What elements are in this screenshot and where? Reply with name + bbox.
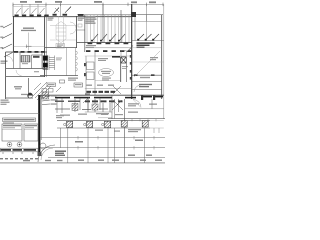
bedroom text block: [137, 42, 155, 48]
turning radius arc: [38, 145, 55, 162]
paper background: [0, 0, 165, 165]
exterior leader arrow 1 (left margin): [2, 24, 13, 58]
beam leader arrows: [92, 34, 125, 41]
strip tick marks: [3, 152, 33, 154]
west edge of joist field: [84, 15, 86, 43]
dashed lot line: [0, 158, 38, 160]
parking horizontal line 3: [48, 157, 165, 159]
schedule table 1: [2, 124, 22, 141]
unit label row below south wall: [85, 100, 123, 102]
dimension text 14'-0": [149, 1, 156, 3]
diagonal in living room: [134, 51, 160, 77]
small car boxes: [42, 89, 47, 93]
heavy center band: main south wall: [40, 94, 164, 96]
porch door swing: [133, 100, 141, 108]
wall lower line with openings: [55, 97, 163, 98]
storage wall y=75.5 center: [40, 75, 78, 77]
stair note text: [48, 18, 54, 19]
note text under beam labels: [86, 45, 96, 46]
oval text: [101, 71, 111, 72]
boxed note center: [56, 44, 65, 49]
level line: [85, 55, 132, 57]
column grid line E: [45, 4, 47, 16]
second floor line: [85, 47, 132, 49]
scalloped duct chase: [67, 48, 78, 76]
column blob at top of right wing: [131, 12, 136, 17]
corner diagonal brace: [127, 46, 133, 53]
small room right of vestibule: [84, 15, 86, 52]
leader arrow bay3: [32, 8, 37, 14]
note text top of left-bottom: [1, 100, 10, 105]
center-right apartment walls: [94, 52, 96, 95]
dimension text 14'-2": [20, 1, 27, 3]
schedule table 2: [24, 124, 38, 141]
column grid line F: [60, 4, 62, 16]
door arc corridor: [16, 70, 22, 76]
column symbol circle 1: [7, 142, 12, 147]
right edge line: [163, 4, 165, 119]
bedroom door arc right: [134, 85, 141, 92]
dim line above south wall: [85, 88, 132, 90]
right wing: heavy wall x=131.5: [131, 4, 133, 99]
heavy west wall of lower block: [38, 95, 40, 152]
corridor note texts: [56, 115, 64, 118]
right wing top interior line: [132, 21, 162, 23]
garage center line: [28, 33, 30, 51]
corridor wall y=76.5: [6, 76, 45, 78]
leader arrow top-left corner: [40, 8, 45, 14]
beam label W16 row (top-left bays): [15, 14, 84, 17]
text below oval: [102, 78, 111, 79]
stair ladder next to elevator: [49, 56, 55, 71]
dimension text 12'-8": [35, 1, 42, 3]
leader arrows at wall: [42, 96, 50, 105]
hatched column 2: [87, 121, 93, 127]
arrow tail texts: [0, 26, 3, 27]
lower garage bottom wall: [6, 97, 33, 99]
hatched column 1: [67, 121, 73, 127]
elevator shaft black cells: [43, 56, 48, 61]
metal deck note text block: [86, 17, 97, 24]
second floor note text right: [150, 57, 158, 60]
leader arrow bay1: [16, 8, 21, 14]
living room text: [140, 77, 150, 78]
garage right double wall: [44, 15, 46, 77]
wheel stop circle on wall: [40, 143, 46, 149]
unit partition walls below corridor: [55, 108, 108, 111]
parking field verticals: [61, 128, 145, 163]
corridor marks: [34, 71, 39, 72]
garage upper-left: left wall: [12, 16, 14, 53]
garage ceiling joist line: [13, 46, 44, 48]
unit sill line: [85, 111, 112, 113]
second-floor beam label row: [86, 50, 131, 52]
door blobs on right wing west wall: [130, 55, 132, 80]
garage sill symbol: [26, 45, 32, 49]
top wall right segment: [131, 14, 163, 16]
leader text: [51, 95, 57, 96]
parking stall ticks: [78, 128, 159, 150]
braced column with X: [121, 57, 127, 63]
column grid line G: [102, 4, 104, 15]
dim text 24'-0: [23, 160, 30, 162]
bar end blob: [38, 152, 42, 156]
joist bearing line: [77, 14, 131, 16]
hatched column 4: [121, 121, 127, 127]
porch verticals: [115, 99, 152, 119]
beam leader arrowheads: [91, 40, 120, 42]
closet note rows: [78, 18, 84, 19]
X brace marks top-center: [55, 7, 71, 12]
column symbol circle 2: [17, 142, 22, 147]
dark wall segment: [112, 56, 120, 58]
dim text 14'-0 bottom: [45, 160, 51, 161]
room text small: [22, 63, 28, 64]
wall label dashes y=75: [134, 74, 155, 76]
ramp hatch blob: [42, 92, 49, 99]
door swing diagonals center: [83, 86, 123, 110]
right wing inner line x=135: [134, 12, 136, 41]
column grid line D: [37, 4, 39, 16]
column grid line C: [29, 4, 31, 16]
dim text center low: [101, 114, 108, 115]
arrowheads: [137, 39, 154, 41]
dim text row above south wall: [86, 85, 114, 86]
dimension text 74'-0": [55, 1, 62, 3]
hatched column 5: [142, 121, 148, 127]
door arcs near vestibule: [70, 22, 76, 28]
leader arrow bay2: [24, 8, 29, 14]
garage text: [14, 86, 22, 88]
leader arrow bay4: [54, 8, 59, 14]
living room wall y=75: [132, 74, 162, 76]
column grid line B: [21, 4, 23, 16]
bottom boundary line: [0, 162, 165, 164]
fixtures in small room: [78, 18, 82, 21]
unit partition verticals: [88, 99, 110, 112]
small room walls mid-left: [13, 52, 42, 69]
parking horizontal line 2: [40, 147, 165, 149]
grid line through field G: [102, 4, 104, 42]
note text center: [98, 58, 108, 59]
closet room under beam: [121, 51, 126, 57]
porch lines right: [124, 99, 126, 163]
wall y=89.5 right: [132, 89, 162, 91]
joist bearing beam: [77, 42, 132, 44]
wall x=76.5: [76, 16, 78, 48]
property line y=113.5: [0, 113, 39, 115]
door/beam label blobs on wall: [14, 51, 45, 53]
diagonal mark: [56, 87, 61, 92]
garage room label text: [21, 28, 36, 32]
dimension ticks: [13, 3, 163, 7]
door arc room A: [7, 56, 13, 62]
corridor wall segments y=101: [55, 100, 80, 102]
existing bedroom text: [139, 84, 152, 88]
unit fixtures: [87, 62, 95, 70]
column grid line H: [146, 4, 148, 21]
curb text below canopy right: [95, 129, 141, 132]
mid-left wall row y=52: [6, 51, 48, 53]
vestibule octagon: [50, 16, 76, 48]
window posts on south wall: [141, 96, 155, 101]
column grid line A: [12, 4, 14, 17]
grid line through field H: [120, 10, 122, 43]
right wing corner diagonals: [127, 47, 132, 52]
beam labels row: [88, 42, 129, 44]
stair block treads: [21, 56, 30, 63]
right wing hline y=40.5: [132, 40, 164, 42]
interior level line: [95, 80, 121, 82]
secondary top line: [13, 5, 46, 7]
storage text below wall: [68, 78, 78, 79]
right wing far wall: [161, 15, 163, 99]
corridor wall y=68.5: [6, 68, 47, 70]
parking horizontal line 1: [40, 137, 165, 139]
bottom-left text strip: [0, 148, 38, 152]
right wing mid vertical: [146, 15, 148, 41]
schedule header strip: [3, 118, 36, 121]
schedule sub note: [3, 122, 14, 123]
wall y=47.5 center: [45, 47, 77, 49]
misc center text boxes: [47, 83, 56, 86]
right wing leader arrows: [138, 34, 159, 40]
outer left wall lower: [5, 52, 7, 99]
dimension text 4'-0": [131, 1, 137, 3]
building top wall: [13, 16, 131, 18]
hatch blobs in band: [72, 104, 78, 111]
joist label row upper: [85, 91, 115, 95]
hatched column 3: [105, 121, 111, 127]
lower garage room: [28, 78, 30, 98]
parking dim texts: [75, 140, 162, 161]
dark fixture in room: [33, 56, 40, 58]
texts above canopy: [60, 113, 123, 116]
no work oval: [99, 69, 114, 77]
band small verticals: [57, 95, 112, 119]
right wing mid rooms: [132, 61, 164, 63]
inner turning arc: [41, 148, 53, 160]
canopy beam with columns: [57, 120, 150, 122]
roof joist field: [87, 15, 129, 43]
ramp hatch band (diagonal): [33, 82, 51, 100]
small note rows: [56, 58, 62, 59]
dimension text 74'-0" center: [94, 1, 102, 3]
hc access text block: [55, 151, 66, 156]
leader arrow bay5: [65, 7, 71, 13]
bedroom wall y=81.5: [132, 81, 162, 83]
left margin note text: [1, 61, 8, 62]
wall thickness blobs: [84, 63, 86, 66]
detail bubble circle (1/4 scale): [27, 93, 32, 98]
shaft walls below column: [120, 57, 122, 82]
porch edge ticks: [132, 119, 156, 122]
top dimension line: [13, 3, 163, 5]
shaft note marks: [122, 66, 128, 67]
right wing second floor line: [132, 47, 162, 49]
porch text: [128, 103, 157, 113]
